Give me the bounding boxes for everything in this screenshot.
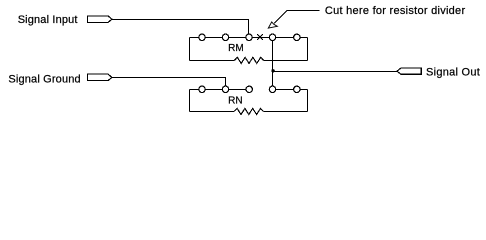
RN pad 2	[222, 86, 228, 92]
connector Signal Out	[397, 68, 421, 74]
svg-text:Signal Input: Signal Input	[18, 14, 78, 26]
connector Signal Input	[87, 16, 112, 23]
resistor RN zigzag	[234, 108, 263, 114]
RM pad 1	[199, 34, 205, 40]
RM box bottom right segment	[264, 59, 308, 61]
wire RM pad4-pad5	[273, 36, 297, 38]
RM pad 3	[246, 34, 252, 40]
wire RM pad1-pad2	[202, 36, 225, 38]
svg-text:Cut here for resistor divider: Cut here for resistor divider	[325, 5, 466, 17]
wire RN pad5 to right corner	[297, 88, 308, 90]
RN pad 3	[246, 86, 252, 92]
RN box bottom right segment	[263, 111, 307, 113]
wire RN pad4-pad5	[273, 88, 297, 90]
wire RM pad3-pad4 (cut span)	[249, 36, 273, 38]
RN box top edge segment	[190, 88, 203, 90]
svg-text:RM: RM	[228, 43, 244, 54]
RM box bottom left segment	[190, 59, 235, 61]
RN pad 5	[294, 86, 300, 92]
RM box left edge	[189, 37, 191, 60]
wire Signal Out	[273, 71, 397, 73]
RM box right edge	[307, 37, 309, 60]
wire RM pad 4 down to RN pad 4	[272, 37, 274, 89]
svg-text:Signal Out: Signal Out	[426, 67, 480, 79]
wire RN pad1-pad2	[202, 88, 226, 90]
RN box bottom left segment	[190, 111, 235, 113]
annotation arrow shaft (Cut here pointer)	[274, 10, 319, 23]
RM box top edge segments	[190, 36, 203, 38]
wire Signal Ground to RN pad 2	[112, 78, 226, 90]
svg-text:RN: RN	[228, 96, 242, 107]
resistor RM zigzag	[234, 57, 263, 63]
RN pad 4	[269, 86, 275, 92]
connector Signal Ground	[87, 74, 112, 81]
junction dot at signal out tap	[271, 69, 274, 72]
RM pad 5	[294, 34, 300, 40]
wire RN pad2-pad3	[226, 88, 250, 90]
annotation arrowhead	[268, 22, 277, 28]
wire RM pad2-pad3	[225, 36, 249, 38]
wire RM pad5 to right corner	[297, 36, 308, 38]
RM pad 4	[269, 34, 275, 40]
cut mark X between RM pad3 and pad4	[257, 34, 263, 40]
RN box left edge	[189, 89, 191, 111]
svg-text:Signal Ground: Signal Ground	[8, 73, 80, 85]
wire Signal Input to RM pad 3	[112, 20, 249, 38]
RM pad 2	[222, 34, 228, 40]
RN pad 1	[199, 86, 205, 92]
RN box right edge	[307, 89, 309, 111]
